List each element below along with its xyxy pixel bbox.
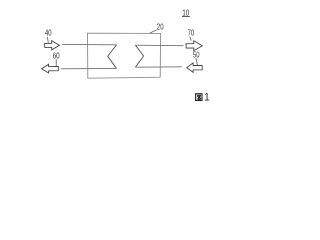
block arrow 40 (inlet, points right): [45, 41, 60, 50]
leader line for 20: [150, 30, 157, 33]
leader line for 70: [190, 37, 191, 41]
break symbol, right zigzag: [135, 45, 143, 67]
wire: top-left pipe: [62, 43, 116, 45]
svg-text:10: 10: [182, 7, 189, 17]
svg-text:1: 1: [204, 92, 210, 104]
leader line for 40: [47, 37, 48, 44]
wire: top-right pipe: [135, 44, 183, 47]
svg-text:70: 70: [188, 28, 195, 38]
block arrow 60 (outlet, points left): [42, 64, 59, 73]
block arrow 70 (outlet, points right): [186, 41, 202, 51]
wire: bottom-left pipe: [61, 67, 117, 69]
node 10 overall reference numeral (underlined): [182, 7, 190, 17]
leader line for 50: [196, 58, 197, 65]
svg-text:20: 20: [157, 21, 164, 31]
block arrow 50 (inlet, points left): [187, 63, 202, 72]
svg-text:60: 60: [53, 51, 60, 60]
wire: bottom-right pipe: [135, 66, 181, 68]
svg-text:40: 40: [45, 28, 52, 38]
svg-text:50: 50: [193, 50, 200, 59]
figure caption: Chinese character 图 (FIG) drawn as glyph: [196, 94, 202, 101]
leader line for 60: [55, 59, 57, 66]
heat exchanger box 20: [88, 33, 161, 78]
break symbol, left zigzag: [108, 45, 117, 69]
